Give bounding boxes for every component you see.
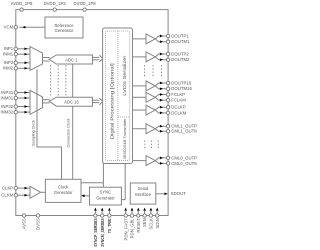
svg-text:DOUTP2: DOUTP2 (171, 51, 189, 56)
pin CML1_OUTP (166, 125, 169, 128)
svg-text:SYNCM_SERDES: SYNCM_SERDES (100, 218, 105, 247)
svg-text:INM1: INM1 (3, 52, 14, 57)
pin INM32 (14, 110, 17, 113)
pin CML0_OUTP (166, 156, 169, 159)
wire MUX2 output pair (43, 99, 50, 101)
pin SDIN (156, 214, 159, 217)
svg-text:INP31: INP31 (1, 90, 14, 95)
wire to pin DOUTM1 (155, 39, 166, 42)
svg-text:INP1: INP1 (4, 46, 14, 51)
svg-text:DOUTP1: DOUTP1 (171, 33, 189, 38)
pin DOUTP16 (166, 81, 169, 84)
wire INP2 to MUX1 (17, 62, 29, 64)
bus arrow ADC1 to digital block (93, 56, 100, 58)
ADC U1 "ADC 1" (49, 55, 92, 64)
dashed lines more channels (50, 65, 52, 96)
wire INP31 to MUX2 (17, 92, 29, 94)
svg-text:LVDS Serializer: LVDS Serializer (122, 55, 127, 96)
svg-text:Generator: Generator (55, 28, 74, 33)
svg-text:CML1_OUTM: CML1_OUTM (171, 129, 197, 134)
svg-text:SYNCP_SERDES: SYNCP_SERDES (93, 218, 98, 247)
svg-text:INM2: INM2 (3, 66, 14, 71)
svg-text:ADC 16: ADC 16 (64, 99, 79, 104)
block digital/serializer outer (103, 28, 133, 164)
pin CLKP (14, 186, 17, 189)
mux MUX1 (2:1 analog mux) (30, 47, 43, 71)
svg-text:FCLKM: FCLKM (171, 98, 186, 103)
svg-text:DOUTM16: DOUTM16 (171, 86, 192, 91)
wire INM1 to MUX1 (17, 53, 29, 55)
svg-text:Sampling Clock: Sampling Clock (31, 120, 36, 146)
wire to pin CML1_OUTM (155, 129, 166, 132)
pin INP31 (14, 91, 17, 94)
svg-text:AVSS: AVSS (22, 218, 27, 229)
wire sampling clock (37, 69, 62, 179)
svg-text:FCLKP: FCLKP (171, 92, 185, 97)
svg-text:DVSS: DVSS (36, 218, 41, 230)
svg-text:DOUTM1: DOUTM1 (171, 39, 190, 44)
pin DOUTP2 (166, 52, 169, 55)
pin RESET (137, 214, 140, 217)
svg-text:Generator: Generator (54, 190, 73, 195)
svg-text:DCLKM: DCLKM (171, 110, 186, 115)
svg-text:CML0_OUTM: CML0_OUTM (171, 161, 197, 166)
wire to pin DOUTP2 (155, 54, 166, 57)
pin DOUTM1 (166, 40, 169, 43)
svg-text:SEN: SEN (142, 218, 147, 227)
block Reference Generator (45, 17, 83, 38)
pin AVSS (22, 214, 25, 217)
block Serial Interface (130, 183, 156, 204)
pin CML1_OUTM (166, 130, 169, 133)
svg-text:DCLKP: DCLKP (171, 105, 185, 110)
svg-text:ADC 1: ADC 1 (65, 58, 78, 63)
wire to pin DCLKP (155, 107, 166, 110)
pin SEN (143, 214, 146, 217)
pin DOUTP1 (166, 34, 169, 37)
wire CLKP (17, 187, 29, 189)
svg-text:SCLK: SCLK (149, 218, 154, 229)
pin SYNCP_SERDES (94, 214, 97, 217)
wire serializer to SYNC Generator right (121, 164, 125, 200)
buffer for FCLKP/FCLKM (133, 96, 147, 98)
svg-text:INM31: INM31 (1, 95, 14, 100)
pin AVDD_1P8 (20, 8, 23, 11)
wire to pin CML0_OUTM (155, 161, 166, 164)
block Clock Generator (45, 179, 81, 202)
svg-text:Digital Processing [Optional]: Digital Processing [Optional] (109, 63, 114, 139)
pin DOUTM2 (166, 58, 169, 61)
buffer for DOUTP16/DOUTM16 (133, 85, 147, 87)
pin SYNCM_SERDES (101, 214, 104, 217)
divider JESD204B dashed line (118, 116, 130, 118)
svg-text:INP2: INP2 (4, 60, 14, 65)
wire to pin CML0_OUTP (155, 158, 166, 161)
pin FCLKM (166, 98, 169, 101)
pin DCLKM (166, 111, 169, 114)
svg-text:RESET: RESET (136, 218, 141, 233)
pin FCLKP (166, 93, 169, 96)
wire CLKM (17, 194, 29, 196)
svg-text:Generator: Generator (96, 196, 115, 201)
wire SYNC Generator to Clock Generator (82, 195, 90, 197)
pin INP1 (14, 47, 17, 50)
wire INP1 to MUX1 (17, 48, 29, 50)
wire SDOUT (156, 193, 167, 195)
pin INP2 (14, 61, 17, 64)
wire INM31 to MUX2 (17, 97, 29, 99)
dashed lines more CML outputs (144, 140, 146, 150)
pin PDN_FAST (124, 214, 127, 217)
wire VCM from Reference Generator (19, 26, 45, 28)
svg-text:PDN_GBL: PDN_GBL (130, 218, 135, 239)
bus arrow ADC16 to digital block (93, 99, 100, 101)
svg-text:CLKM: CLKM (1, 193, 13, 198)
chip outline border (16, 10, 168, 216)
block SYNC Generator (90, 187, 122, 205)
pin SCLK (149, 214, 152, 217)
svg-text:CLKP: CLKP (2, 186, 13, 191)
pin INM1 (14, 53, 17, 56)
wire clock buffer to Clock Generator (41, 191, 46, 193)
buffer for DCLKP/DCLKM (133, 109, 147, 111)
wire to pin DOUTP1 (155, 36, 166, 39)
pin DVDD_1P8 (83, 8, 86, 11)
pin PDN_GBL (130, 214, 133, 217)
pin DVDD_1P2 (53, 8, 56, 11)
wire to pin DCLKM (155, 110, 166, 113)
svg-text:Conversion Clock: Conversion Clock (65, 118, 70, 147)
svg-text:CML0_OUTP: CML0_OUTP (171, 155, 197, 160)
pin DCLKP (166, 106, 169, 109)
svg-text:PDN_FAST: PDN_FAST (123, 218, 128, 241)
pin DVSS (36, 214, 39, 217)
divider dotted line (117, 31, 119, 161)
pin INM2 (14, 67, 17, 70)
buffer for DOUTP2/DOUTM2 (133, 56, 147, 58)
wire conversion clock (72, 64, 74, 97)
svg-text:DOUTP16: DOUTP16 (171, 80, 191, 85)
svg-text:Clock: Clock (58, 184, 69, 189)
pin INM31 (14, 96, 17, 99)
svg-text:DOUTM2: DOUTM2 (171, 57, 190, 62)
svg-text:DVDD_1P8: DVDD_1P8 (73, 1, 96, 6)
wire INM2 to MUX1 (17, 67, 29, 69)
wire to pin FCLKM (155, 97, 166, 100)
svg-text:TX_TRIG: TX_TRIG (107, 218, 112, 234)
wire to pin DOUTM2 (155, 57, 166, 60)
svg-text:SDIN: SDIN (155, 218, 160, 228)
buffer for DOUTP1/DOUTM1 (133, 38, 147, 40)
wire to pin CML1_OUTP (155, 126, 166, 129)
svg-text:Reference: Reference (54, 23, 74, 28)
svg-text:Serial: Serial (138, 186, 149, 191)
pin VCM (14, 26, 17, 29)
buffer for CML1_OUTP/CML1_OUTM (133, 128, 147, 130)
pin TX_TRIG (108, 214, 111, 217)
dashed lines more DOUT channels (144, 65, 146, 77)
svg-text:VCM: VCM (4, 25, 14, 30)
svg-text:AVDD_1P8: AVDD_1P8 (11, 1, 33, 6)
pin CML0_OUTM (166, 162, 169, 165)
svg-text:SYNC: SYNC (100, 190, 112, 195)
pin CLKM (14, 194, 17, 197)
wire to pin DOUTM16 (155, 86, 166, 89)
wire INP32 to MUX2 (17, 106, 29, 108)
svg-text:JESD204B Transmitter: JESD204B Transmitter (122, 118, 127, 160)
block Digital Processing (Optional) dotted (105, 31, 129, 161)
clock input buffer (30, 186, 41, 198)
wire MUX1 output pair (43, 57, 50, 59)
wire INM32 to MUX2 (17, 111, 29, 113)
svg-text:DVDD_1P2: DVDD_1P2 (44, 1, 67, 6)
ADC U16 "ADC 16" (49, 97, 92, 106)
wire serializer branch to Clock Generator (81, 182, 103, 184)
svg-text:INP32: INP32 (1, 104, 14, 109)
svg-text:INM32: INM32 (1, 110, 14, 115)
pin INP32 (14, 105, 17, 108)
wire serializer to SYNC Generator top (102, 164, 104, 188)
pin DOUTM16 (166, 87, 169, 90)
svg-text:SDOUT: SDOUT (171, 191, 186, 196)
mux MUX2 (2:1 analog mux) (30, 90, 43, 114)
buffer for CML0_OUTP/CML0_OUTM (133, 160, 147, 162)
wire to pin DOUTP16 (155, 83, 166, 86)
wire to pin FCLKP (155, 95, 166, 98)
svg-text:Interface: Interface (135, 192, 152, 197)
